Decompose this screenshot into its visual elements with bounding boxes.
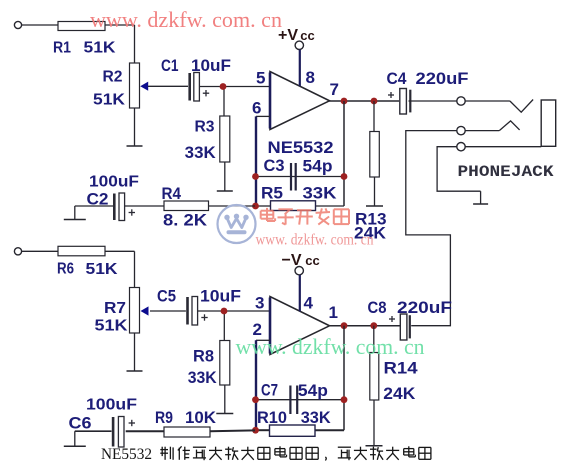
svg-text:R6: R6	[57, 261, 74, 278]
svg-text:220uF: 220uF	[397, 298, 452, 317]
svg-text:1: 1	[329, 303, 338, 322]
svg-text:24K: 24K	[383, 384, 416, 403]
svg-text:10K: 10K	[185, 408, 217, 427]
svg-text:www. dzkfw. com. cn: www. dzkfw. com. cn	[236, 334, 425, 359]
svg-text:NE5532: NE5532	[101, 446, 152, 463]
svg-text:33K: 33K	[188, 369, 217, 387]
svg-text:8: 8	[306, 68, 315, 87]
svg-text:33K: 33K	[303, 185, 337, 203]
svg-text:R8: R8	[193, 348, 214, 366]
svg-text:51K: 51K	[95, 318, 128, 335]
svg-text:100uF: 100uF	[86, 397, 137, 414]
svg-text:R7: R7	[104, 300, 126, 317]
svg-text:C3: C3	[264, 157, 285, 175]
svg-text:10uF: 10uF	[191, 57, 231, 75]
svg-text:5: 5	[256, 69, 265, 88]
svg-text:www. dzkfw. com. cn: www. dzkfw. com. cn	[256, 232, 374, 249]
svg-text:C2: C2	[87, 190, 109, 209]
svg-text:R1: R1	[53, 40, 71, 57]
svg-text:51K: 51K	[86, 261, 118, 278]
svg-text:C7: C7	[261, 382, 278, 400]
svg-text:R4: R4	[162, 184, 182, 203]
svg-text:C1: C1	[161, 57, 179, 75]
svg-text:cc: cc	[305, 253, 319, 268]
svg-text:4: 4	[304, 294, 314, 313]
svg-text:7: 7	[330, 80, 339, 99]
svg-text:R10: R10	[257, 409, 287, 427]
svg-text:C8: C8	[368, 298, 387, 317]
svg-text:C4: C4	[387, 69, 407, 88]
svg-text:R14: R14	[384, 359, 419, 378]
svg-text:3: 3	[255, 294, 264, 313]
svg-text:www. dzkfw. com. cn: www. dzkfw. com. cn	[90, 7, 282, 32]
svg-text:NE5532: NE5532	[268, 138, 334, 157]
svg-text:33K: 33K	[301, 409, 331, 427]
svg-text:PHONEJACK: PHONEJACK	[458, 163, 554, 181]
svg-text:10uF: 10uF	[200, 288, 241, 306]
svg-text:C5: C5	[157, 288, 176, 306]
svg-text:R9: R9	[155, 408, 173, 427]
svg-text:51K: 51K	[84, 40, 116, 57]
svg-text:R5: R5	[261, 185, 283, 203]
svg-text:220uF: 220uF	[416, 69, 469, 88]
svg-text:6: 6	[252, 99, 261, 118]
svg-text:C6: C6	[69, 414, 92, 433]
svg-text:R2: R2	[103, 69, 123, 86]
svg-text:100uF: 100uF	[89, 174, 139, 191]
svg-text:54p: 54p	[303, 158, 333, 176]
svg-text:8. 2K: 8. 2K	[163, 211, 208, 230]
svg-text:cc: cc	[300, 28, 314, 43]
svg-text:−V: −V	[282, 252, 302, 269]
svg-text:R3: R3	[195, 119, 215, 136]
svg-text:33K: 33K	[185, 144, 216, 162]
svg-text:51K: 51K	[93, 92, 125, 109]
svg-text:54p: 54p	[298, 382, 328, 400]
